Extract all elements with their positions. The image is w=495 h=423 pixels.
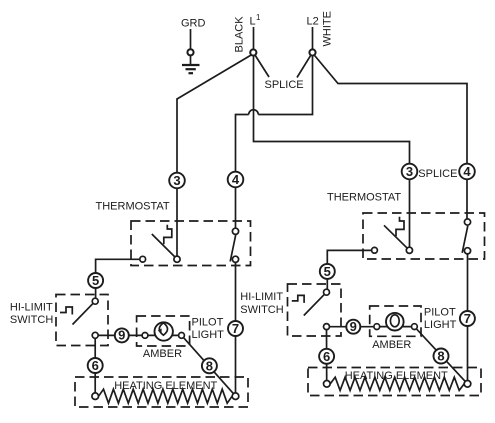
pilot light left label	[192, 316, 225, 341]
left terminal	[324, 381, 331, 388]
wire pilot right terminal to element right terminal via node 8	[184, 338, 234, 394]
wire hi-limit down to node 6 left	[94, 338, 96, 393]
node 5 right	[320, 264, 335, 279]
svg-text:LIGHT: LIGHT	[424, 319, 457, 331]
second pole top contact	[232, 228, 238, 234]
svg-text:L: L	[250, 16, 256, 28]
svg-text:9: 9	[350, 319, 357, 334]
svg-text:THERMOSTAT: THERMOSTAT	[327, 192, 401, 204]
svg-text:7: 7	[464, 311, 471, 326]
splice L2	[309, 49, 315, 55]
wire left thermostat pole2 down through node 7 to element	[235, 263, 237, 394]
left contact terminal	[372, 247, 378, 253]
switch blade	[152, 234, 177, 259]
lamp DS1	[155, 322, 173, 340]
node 3 left	[169, 173, 185, 189]
second pole bottom contact	[464, 248, 470, 254]
heating element left	[75, 377, 248, 407]
pilot light left	[137, 316, 190, 346]
hi-limit switch right	[288, 284, 342, 336]
node 9 right	[346, 319, 360, 334]
second pole bottom contact	[232, 256, 238, 262]
wire pilot right terminal to element right terminal via node 8 right	[417, 329, 466, 382]
bottom terminal	[92, 332, 98, 338]
splice L1	[250, 49, 256, 55]
node 4 left	[228, 172, 244, 188]
wire L2 splice down then left with hop to left circuit 4	[236, 56, 313, 228]
top terminal	[324, 289, 330, 295]
left terminal	[142, 333, 148, 339]
svg-text:6: 6	[323, 349, 330, 364]
svg-text:5: 5	[324, 264, 331, 279]
wire thermostat left contact to node 5 left	[96, 259, 140, 274]
wire hi-limit to node 9 right to pilot	[330, 326, 375, 328]
svg-text:SWITCH: SWITCH	[10, 314, 53, 326]
wire L2 splice short tail to SPLICE label	[297, 55, 311, 77]
svg-text:GRD: GRD	[181, 18, 206, 30]
wire L1 splice short tail to SPLICE label	[255, 55, 269, 77]
svg-text:5: 5	[92, 273, 99, 288]
node 6 left	[88, 358, 103, 373]
staircase actuator	[396, 217, 404, 237]
svg-text:WHITE: WHITE	[322, 11, 334, 46]
wire hi-limit to node 9 left to pilot	[98, 334, 142, 336]
right terminal	[464, 381, 471, 388]
svg-text:4: 4	[232, 172, 240, 187]
blade	[304, 292, 327, 315]
svg-text:8: 8	[437, 349, 444, 364]
svg-text:SWITCH: SWITCH	[240, 304, 283, 316]
bottom terminal	[324, 324, 330, 330]
hi-limit switch left label	[10, 302, 53, 327]
wire L2 splice diagonal and right to right thermostat (circuit 4 right)	[314, 55, 467, 222]
svg-text:3: 3	[406, 164, 413, 179]
svg-text:7: 7	[232, 321, 239, 336]
pilot light right	[370, 306, 421, 336]
top terminal	[92, 298, 98, 304]
svg-text:3: 3	[173, 173, 180, 188]
svg-text:6: 6	[92, 358, 99, 373]
svg-text:HI-LIMIT: HI-LIMIT	[240, 291, 283, 303]
svg-text:PILOT: PILOT	[192, 316, 224, 328]
ground GRD	[181, 18, 206, 74]
svg-text:LIGHT: LIGHT	[192, 329, 225, 341]
svg-text:AMBER: AMBER	[143, 348, 182, 360]
svg-text:BLACK: BLACK	[234, 16, 246, 53]
wire thermostat right contact to node 5 right	[327, 250, 371, 265]
node 3 right	[402, 164, 418, 180]
right terminal	[232, 393, 239, 400]
svg-text:SPLICE: SPLICE	[265, 79, 304, 91]
lamp DS2	[386, 313, 404, 331]
node 8 left	[202, 358, 217, 373]
blade pivot terminal	[406, 247, 412, 253]
svg-text:SPLICE: SPLICE	[418, 168, 457, 180]
node 7 left	[228, 321, 243, 336]
wire hi-limit down to node 6 right	[326, 330, 328, 381]
blade	[73, 301, 96, 324]
svg-text:AMBER: AMBER	[372, 339, 411, 351]
wire right thermostat pole2 down through node 7 to element	[467, 254, 469, 381]
node L2	[307, 16, 319, 50]
hi-limit switch right label	[240, 291, 283, 316]
hi-limit switch left	[56, 295, 108, 346]
left terminal	[374, 324, 380, 330]
heating element right	[308, 368, 481, 396]
svg-text:PILOT: PILOT	[424, 306, 456, 318]
wire L1 splice to left thermostat (circuit 3 left)	[177, 55, 252, 257]
switch blade	[384, 225, 409, 250]
node 6 right	[319, 349, 334, 364]
wire node5 to hi-limit right	[326, 279, 328, 290]
resistive element	[99, 389, 233, 403]
node 7 right	[460, 311, 475, 326]
node 8 right	[434, 349, 449, 364]
node 9 left	[115, 328, 129, 343]
svg-text:9: 9	[118, 328, 125, 343]
second pole top contact	[464, 219, 470, 225]
svg-text:8: 8	[206, 358, 213, 373]
svg-text:L2: L2	[307, 16, 319, 28]
svg-text:4: 4	[463, 164, 471, 179]
right terminal	[179, 333, 185, 339]
staircase actuator	[60, 307, 72, 315]
right terminal	[412, 324, 418, 330]
wire L1 splice down and right to right thermostat (circuit 3 right)	[254, 56, 410, 250]
thermostat left	[131, 221, 251, 266]
left contact terminal	[140, 256, 146, 262]
staircase actuator	[292, 295, 304, 303]
wire node5 to hi-limit left	[95, 288, 97, 299]
node L1	[250, 13, 262, 49]
blade pivot terminal	[174, 256, 180, 262]
resistive element	[330, 377, 464, 390]
second pole blade	[462, 226, 468, 253]
svg-text:HI-LIMIT: HI-LIMIT	[10, 302, 53, 314]
node 4 right	[459, 164, 475, 180]
thermostat right	[363, 213, 485, 259]
staircase actuator	[164, 225, 172, 245]
svg-text:1: 1	[256, 13, 261, 22]
pilot light right label	[424, 306, 457, 331]
svg-text:THERMOSTAT: THERMOSTAT	[96, 201, 170, 213]
second pole blade	[230, 235, 236, 262]
node 5 left	[88, 273, 103, 288]
left terminal	[92, 393, 99, 400]
